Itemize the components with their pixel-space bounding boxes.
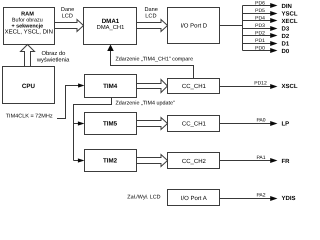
wire XSCL from CC_CH1: [220, 86, 271, 88]
svg-text:PA0: PA0: [256, 118, 265, 124]
svg-text:D3: D3: [282, 25, 290, 32]
svg-text:FR: FR: [282, 158, 291, 165]
svg-text:Zdarzenie „TIM4 update”: Zdarzenie „TIM4 update”: [116, 101, 176, 107]
svg-text:PD1: PD1: [255, 38, 265, 44]
wire PD2: [243, 35, 271, 37]
svg-text:LCD: LCD: [62, 14, 73, 20]
svg-text:YDIS: YDIS: [282, 195, 296, 202]
wire PD4: [243, 20, 271, 22]
arrowhead into DMA1 bottom: [107, 45, 114, 52]
svg-text:PD5: PD5: [255, 8, 265, 14]
svg-text:TIM2: TIM2: [103, 158, 118, 165]
block arrow TIM5 to CC_CH1: [137, 118, 168, 130]
arrowhead FR: [270, 158, 277, 163]
svg-text:TIM4CLK = 72MHz: TIM4CLK = 72MHz: [6, 114, 53, 120]
RAM box: [4, 8, 55, 45]
arrowhead PD4: [270, 18, 277, 23]
svg-text:TIM5: TIM5: [103, 121, 118, 128]
label Dane LCD 2: [145, 7, 158, 20]
svg-text:D0: D0: [282, 48, 290, 55]
svg-text:Zdarzenie „TIM4_CH1” compare: Zdarzenie „TIM4_CH1” compare: [116, 57, 194, 63]
arrowhead PD6: [270, 3, 277, 8]
svg-text:LCD: LCD: [145, 13, 156, 19]
block arrow RAM to DMA1: [55, 20, 84, 32]
wire TIM4CLK: label line up into TIM4: [57, 86, 79, 119]
svg-text:wyświetlenia: wyświetlenia: [36, 56, 70, 63]
arrowhead into TIM2: [78, 158, 85, 162]
svg-text:YSCL: YSCL: [282, 10, 298, 17]
svg-text:LP: LP: [282, 120, 290, 127]
block arrow DMA1 to I/O Port D: [137, 20, 168, 32]
wire PD5: [243, 13, 271, 15]
svg-text:CC_CH1: CC_CH1: [182, 121, 207, 128]
svg-text:PA1: PA1: [256, 155, 265, 161]
svg-text:I/O Port A: I/O Port A: [181, 195, 207, 202]
I/O Port A box: [168, 190, 220, 206]
svg-text:PD12: PD12: [254, 81, 267, 87]
svg-text:DMA_CH1: DMA_CH1: [97, 24, 125, 31]
block arrow CPU to RAM (vertical): [21, 45, 35, 67]
TIM5 box: [85, 113, 137, 135]
CC_CH1 box (middle): [168, 116, 220, 132]
svg-text:I/O Port D: I/O Port D: [180, 22, 207, 29]
wire TIM4 update event: stub down, left, down the bus: [74, 98, 112, 161]
svg-text:XSCL: XSCL: [282, 83, 298, 90]
wire PD6: [243, 5, 271, 7]
CC_CH1 box (top): [168, 79, 220, 94]
arrowhead into TIM4: [78, 83, 84, 87]
svg-text:CPU: CPU: [22, 83, 36, 90]
wire LP from CC_CH1 mid: [220, 123, 271, 125]
svg-text:TIM4: TIM4: [103, 83, 118, 90]
svg-text:D1: D1: [282, 40, 290, 47]
svg-text:PD0: PD0: [255, 45, 265, 51]
TIM4 box: [85, 75, 137, 98]
svg-text:PD2: PD2: [255, 30, 265, 36]
svg-text:DIN: DIN: [282, 3, 292, 10]
svg-text:XECL: XECL: [282, 18, 298, 25]
wire PD3: [243, 28, 271, 30]
svg-text:Dane: Dane: [61, 7, 74, 13]
svg-text:PD6: PD6: [255, 0, 265, 6]
CC_CH2 box: [168, 153, 220, 169]
arrowhead LP: [270, 121, 277, 126]
svg-text:Obraz do: Obraz do: [41, 50, 65, 57]
arrowhead YDIS: [270, 196, 277, 201]
wire PD0: [243, 50, 271, 52]
wire branch into TIM2: [74, 160, 79, 162]
svg-text:PA2: PA2: [256, 193, 265, 199]
arrowhead into TIM5: [78, 121, 85, 125]
arrowhead PD5: [270, 11, 277, 16]
block arrow TIM4 to CC_CH1: [137, 80, 168, 93]
svg-text:PD3: PD3: [255, 23, 265, 29]
svg-text:CC_CH2: CC_CH2: [182, 158, 207, 165]
wire PD1: [243, 43, 271, 45]
fan bus vertical: [242, 6, 244, 51]
arrowhead PD0: [270, 48, 277, 53]
arrowhead PD2: [270, 33, 277, 38]
label Dane LCD 1: [61, 7, 74, 19]
wire YDIS from I/O Port A: [220, 198, 271, 200]
arrowhead PD1: [270, 41, 277, 46]
svg-text:Zał./Wył. LCD: Zał./Wył. LCD: [127, 195, 160, 201]
I/O Port D box: [168, 8, 220, 44]
svg-text:CC_CH1: CC_CH1: [182, 83, 207, 90]
label Obraz do wyswietlenia: [36, 50, 70, 63]
svg-text:Dane: Dane: [145, 7, 158, 13]
block arrow TIM2 to CC_CH2: [137, 155, 168, 167]
arrowhead PD3: [270, 26, 277, 31]
wire branch into TIM5: [74, 123, 79, 125]
wire FR from CC_CH2: [220, 160, 271, 162]
arrowhead XSCL: [270, 84, 277, 89]
svg-text:+ sekwencje: + sekwencje: [11, 24, 43, 30]
svg-text:XECL, YSCL, DIN: XECL, YSCL, DIN: [5, 29, 53, 36]
TIM2 box: [85, 150, 137, 172]
wire I/O Port D to fan bus: [220, 25, 243, 27]
DMA1 box: [84, 8, 137, 45]
svg-text:D2: D2: [282, 33, 290, 40]
svg-text:PD4: PD4: [255, 15, 265, 21]
CPU box: [3, 67, 55, 104]
wire compare event: CC_CH1 top up, left to DMA1: [111, 51, 194, 79]
